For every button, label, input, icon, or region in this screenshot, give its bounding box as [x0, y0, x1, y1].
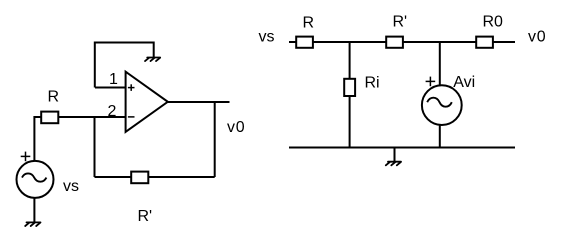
svg-text:Avi: Avi [453, 74, 475, 91]
svg-text:R': R' [138, 208, 153, 225]
bottom wire (right circuit) [289, 147, 515, 149]
svg-text:2: 2 [108, 103, 117, 120]
wire: feedback right vertical to output [214, 102, 216, 177]
svg-text:R: R [303, 15, 315, 32]
wire: ground stub [394, 148, 396, 162]
svg-text:1: 1 [109, 71, 118, 88]
op-amp - input marker [128, 116, 135, 118]
resistor R (left circuit) [41, 112, 58, 124]
svg-text:R0: R0 [483, 14, 504, 31]
plus sign of Avi source [426, 77, 436, 87]
wire: op-amp output to v0 [168, 101, 230, 103]
resistor R0 (right circuit) [476, 37, 493, 48]
svg-text:R': R' [393, 14, 408, 31]
wire: feedback bottom run [95, 176, 215, 178]
op-amp + input marker [128, 84, 135, 91]
resistor Ri [344, 79, 355, 96]
wire vs bottom to ground [33, 198, 35, 223]
svg-text:Ri: Ri [365, 74, 380, 91]
wire vs top to R [34, 117, 126, 161]
node: junction of pin2 wire and feedback [94, 117, 96, 177]
ground (right circuit) [386, 162, 401, 166]
wire: pin1 into op-amp [95, 87, 126, 89]
op-amp U1 [126, 72, 168, 132]
svg-text:v0: v0 [528, 28, 547, 45]
svg-text:R: R [48, 89, 60, 106]
wire: pin1 loop to top ground [95, 43, 154, 88]
resistor R' (left circuit) [131, 172, 148, 184]
plus sign of vs source [21, 152, 31, 162]
wire: Avi branch bottom [439, 125, 441, 148]
wire: Avi branch top [439, 42, 441, 85]
svg-text:v0: v0 [227, 119, 246, 136]
resistor R' (right circuit) [386, 37, 403, 48]
ground at pin1 loop [145, 58, 160, 62]
svg-text:vs: vs [63, 178, 79, 195]
ground below vs [25, 222, 40, 226]
resistor R (right circuit) [296, 37, 313, 48]
voltage source vs (left circuit) [17, 161, 54, 198]
svg-text:vs: vs [259, 28, 275, 45]
controlled source Avi [422, 85, 462, 125]
wire: Ri branch [349, 42, 351, 148]
top wire (right circuit) [289, 41, 515, 43]
